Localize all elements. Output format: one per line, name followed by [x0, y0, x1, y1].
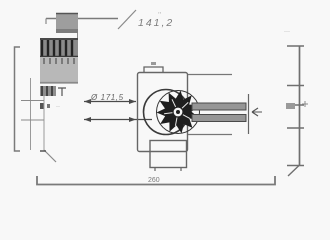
svg-text:,,: ,, — [158, 9, 162, 15]
svg-text:141,2: 141,2 — [138, 17, 174, 29]
svg-text:Ø 171,5: Ø 171,5 — [90, 93, 124, 102]
svg-text:··: ·· — [56, 104, 60, 110]
svg-text:···: ··· — [284, 29, 290, 35]
svg-text:260: 260 — [148, 177, 160, 184]
